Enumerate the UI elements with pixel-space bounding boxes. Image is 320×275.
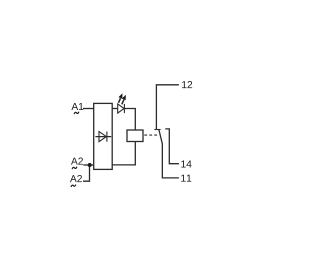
diode V1 cathode bar [106, 132, 108, 142]
relay coil K1 [127, 130, 143, 142]
LED light arrow 2 head [122, 95, 126, 101]
NO contact hook and wire to terminal 14 [165, 129, 179, 164]
LED triangle [118, 104, 124, 113]
label 11 [181, 175, 191, 182]
wire terminal 12 down to NC contact [156, 85, 179, 130]
NC contact tick [154, 129, 160, 131]
LED light arrow 1 head [118, 93, 122, 99]
label A2 first [71, 157, 83, 164]
wire A2 to box [83, 164, 93, 166]
label 12 [182, 81, 192, 88]
wire LED to relay coil top [124, 109, 135, 131]
wire second A2 up to junction [83, 166, 90, 181]
LED light arrow 2 line [122, 100, 124, 105]
wire A1 to input box [83, 108, 94, 110]
input module box [94, 103, 113, 169]
wire coil bottom to box right [112, 142, 135, 165]
label 14 [181, 160, 191, 167]
wire box to LED [112, 108, 118, 110]
dashed actuation link [144, 134, 157, 136]
diode V1 triangle [99, 132, 106, 142]
LED cathode bar [123, 104, 125, 113]
label A1 [71, 103, 83, 110]
tilde under A1 [74, 112, 79, 114]
junction dot A2 [88, 163, 92, 167]
LED light arrow 1 line [119, 98, 121, 103]
switch blade and wire to terminal 11 [159, 130, 179, 178]
tilde under first A2 [72, 167, 77, 169]
tilde under second A2 [71, 185, 76, 187]
diode V1 axis wire [95, 136, 111, 138]
label A2 second [70, 175, 82, 182]
